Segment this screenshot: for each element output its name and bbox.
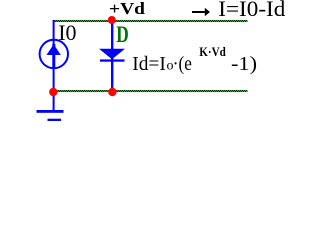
svg-text:-1): -1) (231, 53, 257, 75)
node junction bottom left (source to ground) (49, 88, 57, 96)
node junction top (diode to +Vd) (108, 16, 116, 24)
arrow current direction (192, 8, 210, 16)
node junction bottom right (diode to ground) (108, 88, 116, 96)
svg-text:I0: I0 (58, 20, 76, 45)
diode D (99, 49, 125, 62)
wire top net +Vd (53, 20, 248, 22)
svg-text:Id=I: Id=I (132, 53, 166, 75)
wire bottom ground net (53, 90, 248, 92)
wire left branch vertical (53, 20, 55, 92)
label diode equation (132, 44, 257, 75)
current source I0 (40, 40, 68, 68)
svg-text:+Vd: +Vd (109, 0, 146, 18)
wire right branch vertical (111, 20, 113, 92)
ground (37, 92, 64, 121)
svg-text:K·Vd: K·Vd (199, 44, 226, 59)
svg-text:D: D (116, 22, 129, 47)
svg-text:·(e: ·(e (173, 53, 192, 75)
svg-text:I=I0-Id: I=I0-Id (218, 0, 285, 21)
